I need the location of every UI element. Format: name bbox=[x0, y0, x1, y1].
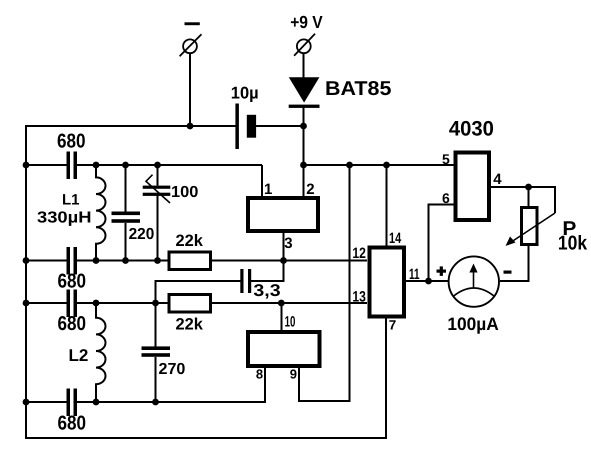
node junction dot C3 top bbox=[154, 162, 161, 169]
svg-text:330µH: 330µH bbox=[37, 210, 92, 227]
svg-text:3: 3 bbox=[284, 235, 292, 252]
capacitor C4 680 second bbox=[67, 247, 78, 275]
svg-text:680: 680 bbox=[58, 313, 87, 335]
svg-text:680: 680 bbox=[58, 270, 87, 292]
svg-text:10µ: 10µ bbox=[231, 84, 259, 103]
node junction dot 270 bottom bbox=[152, 399, 159, 406]
wire diode node down to Vcc rail bbox=[303, 126, 305, 165]
node junction dot row D / left rail bbox=[23, 300, 30, 307]
wire diode cathode down to top rail bbox=[303, 107, 305, 126]
svg-text:2: 2 bbox=[306, 181, 314, 198]
svg-text:7: 7 bbox=[389, 318, 397, 333]
svg-text:L2: L2 bbox=[69, 346, 89, 365]
wire 3,3 left to row D bbox=[156, 281, 241, 303]
node junction dot L1 top bbox=[93, 162, 100, 169]
node junction dot row C / left rail bbox=[23, 257, 30, 264]
wire +9V terminal to diode bbox=[303, 53, 305, 79]
wire top rail left of C5 bbox=[25, 125, 236, 127]
trimmer capacitor C3 100 bbox=[143, 165, 171, 261]
svg-text:10k: 10k bbox=[558, 233, 588, 255]
node junction dot L2 bottom bbox=[93, 399, 100, 406]
svg-text:8: 8 bbox=[256, 367, 263, 382]
node junction dot pin11/pin6 bbox=[425, 278, 432, 285]
label meter plus bbox=[437, 266, 447, 276]
potentiometer P 10k bbox=[506, 208, 556, 247]
svg-text:220: 220 bbox=[129, 226, 155, 243]
svg-text:11: 11 bbox=[409, 266, 420, 283]
wire minus terminal drop bbox=[189, 53, 191, 126]
capacitor C7 680 third bbox=[67, 290, 78, 318]
wire pin 11 to meter plus bbox=[404, 280, 448, 282]
wire row B left (tank L1 top) bbox=[25, 164, 262, 166]
wire left rail bbox=[25, 125, 27, 438]
terminal +9V bbox=[294, 34, 315, 56]
IC2 oscillator gate (pins 8,9,10) bbox=[248, 332, 320, 366]
IC4 4030 XOR gate (pins 4,5,6) bbox=[455, 152, 489, 220]
svg-text:10: 10 bbox=[285, 313, 296, 330]
wire pin 9 to Vcc riser bbox=[299, 165, 350, 401]
node junction dot diode/top rail bbox=[300, 123, 307, 130]
IC3 mixer gate (pins 12,13,11,14,7) bbox=[369, 248, 404, 317]
capacitor C1 680 top bbox=[67, 152, 78, 180]
wire row D (L2 top / pin 13) bbox=[25, 302, 367, 304]
svg-text:14: 14 bbox=[389, 230, 402, 247]
wire row C (tank bottom / pin 12) bbox=[25, 260, 367, 262]
svg-text:680: 680 bbox=[58, 413, 87, 435]
IC1 oscillator gate (pins 1,2,3) bbox=[248, 198, 318, 231]
svg-text:3,3: 3,3 bbox=[253, 281, 280, 300]
wire Vcc rail to 4030 pin 5 bbox=[304, 164, 456, 166]
inductor L1 bbox=[96, 165, 106, 261]
node junction dot 270/3,3 row D bbox=[152, 300, 159, 307]
resistor R1 22k bbox=[169, 252, 211, 270]
node junction dot C2 top bbox=[122, 162, 129, 169]
wire pin 14 drop from Vcc bbox=[386, 165, 388, 249]
capacitor C2 220 bbox=[112, 165, 141, 261]
terminal minus (battery minus connector) bbox=[180, 22, 202, 56]
capacitor C8 270 bbox=[142, 303, 171, 402]
wire row E (L2 bottom to pin 8) bbox=[25, 367, 265, 402]
svg-text:9: 9 bbox=[290, 366, 297, 381]
wire pin 1 drop of IC1 bbox=[261, 165, 263, 198]
svg-text:680: 680 bbox=[57, 131, 86, 153]
node junction dot pin4/pot bbox=[525, 184, 532, 191]
capacitor C9 680 fourth bbox=[67, 389, 78, 417]
svg-text:+9 V: +9 V bbox=[290, 12, 323, 32]
svg-text:12: 12 bbox=[352, 245, 366, 262]
wire top rail right of C5 bbox=[256, 125, 304, 127]
wire pin 10 drop bbox=[280, 303, 282, 333]
wire pot top bbox=[528, 187, 530, 208]
svg-text:5: 5 bbox=[442, 151, 450, 167]
diode D1 BAT85 bbox=[289, 77, 320, 108]
label meter minus bbox=[504, 271, 512, 274]
capacitor C6 3,3 bbox=[240, 269, 251, 293]
svg-text:6: 6 bbox=[442, 190, 450, 206]
inductor L2 bbox=[96, 303, 106, 402]
svg-text:13: 13 bbox=[352, 289, 366, 306]
resistor R2 22k bbox=[169, 295, 211, 313]
node junction dot C2 bottom bbox=[122, 257, 129, 264]
node junction dot C3 bottom bbox=[154, 257, 161, 264]
wire 3,3 branch: row C down, left to cap bbox=[251, 261, 283, 282]
node junction dot row E / left rail bbox=[23, 399, 30, 406]
wire pot bottom to meter minus bbox=[500, 245, 529, 282]
node junction dot pin3/row C bbox=[280, 257, 287, 264]
svg-text:100µA: 100µA bbox=[447, 314, 498, 334]
node junction dot pin10/row D bbox=[278, 300, 285, 307]
svg-text:BAT85: BAT85 bbox=[325, 78, 391, 100]
node junction dot Vcc/pin2 bbox=[300, 162, 307, 169]
svg-text:22k: 22k bbox=[176, 315, 204, 333]
node junction dot L2 top bbox=[93, 300, 100, 307]
node junction dot L1 bottom bbox=[93, 257, 100, 264]
wire pin 2 drop of IC1 bbox=[303, 165, 305, 198]
node junction dot row B / left rail bbox=[23, 162, 30, 169]
svg-text:L1: L1 bbox=[62, 192, 80, 209]
wire pin 4 to pot node bbox=[490, 187, 555, 213]
svg-text:270: 270 bbox=[159, 361, 186, 378]
svg-text:100: 100 bbox=[171, 184, 198, 201]
capacitor C5 10u electrolytic bbox=[235, 104, 256, 150]
wire pin 3 drop bbox=[283, 231, 285, 261]
meter M1 100uA bbox=[449, 256, 499, 306]
node junction dot Vcc/pin14 bbox=[383, 162, 390, 169]
wire pin 6 to meter node bbox=[429, 205, 456, 282]
node junction dot Vcc/pin9 riser bbox=[346, 162, 353, 169]
wire bottom rail to pin 7 bbox=[25, 316, 386, 438]
svg-text:4030: 4030 bbox=[449, 118, 494, 141]
node junction dot terminal/top rail bbox=[187, 123, 194, 130]
svg-text:22k: 22k bbox=[176, 232, 204, 250]
svg-text:1: 1 bbox=[264, 181, 272, 198]
svg-text:4: 4 bbox=[493, 171, 502, 188]
